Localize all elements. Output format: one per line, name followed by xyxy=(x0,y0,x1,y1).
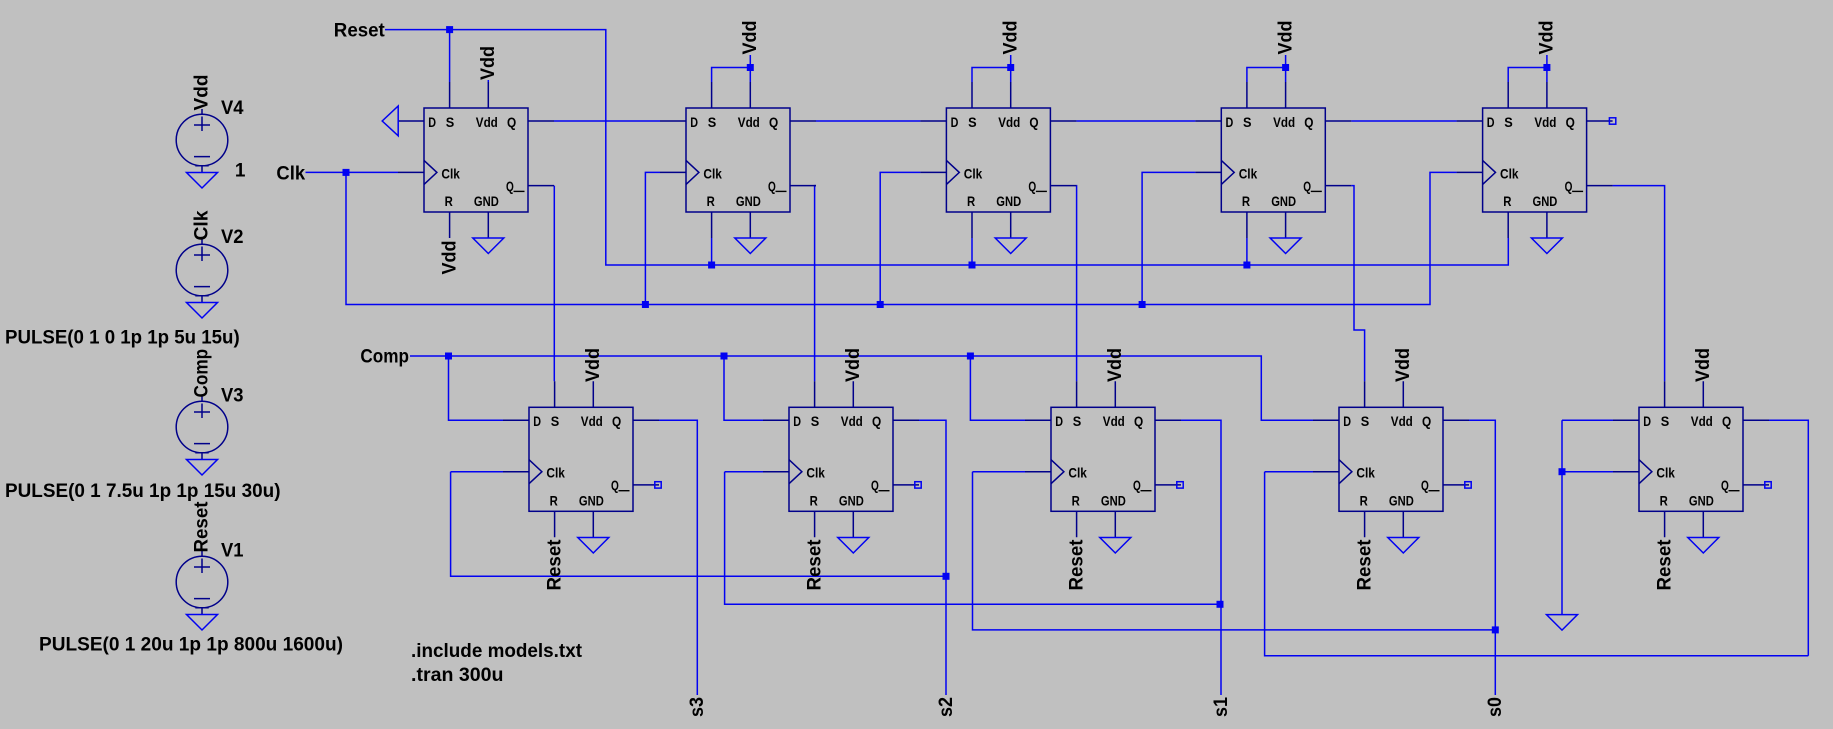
node junction Vdd jog xyxy=(1282,64,1289,71)
svg-text:PULSE(0 1 7.5u 1p 1p 15u 30u): PULSE(0 1 7.5u 1p 1p 15u 30u) xyxy=(5,481,281,502)
ground at U6 GND pin xyxy=(578,538,609,554)
voltage source V1 xyxy=(176,551,228,615)
node junction Vdd jog xyxy=(1543,64,1550,71)
svg-text:V2: V2 xyxy=(221,227,244,248)
node junction s2 / U6 Clk line xyxy=(943,573,950,580)
ground below V1 xyxy=(187,615,218,631)
ground at U8 GND pin xyxy=(1100,538,1131,554)
wire U5 Qbar to U10 S xyxy=(1613,186,1665,382)
wire U7 Q to s2 xyxy=(919,420,946,695)
svg-text:Vdd: Vdd xyxy=(1105,348,1126,382)
node junction Clk bus / U2 xyxy=(642,301,649,308)
ground below V3 xyxy=(187,460,218,476)
wire Vdd jog at S pin xyxy=(1508,55,1547,82)
node U7 Qbar output (open terminal) xyxy=(915,482,921,488)
node U1 D input arrow xyxy=(382,106,398,136)
node U10 Qbar output (open terminal) xyxy=(1765,482,1771,488)
svg-text:Reset: Reset xyxy=(544,539,565,591)
svg-text:V1: V1 xyxy=(221,541,244,562)
wire U8 Q to s1 xyxy=(1181,420,1221,695)
svg-text:Vdd: Vdd xyxy=(583,348,604,382)
node junction Reset bus / U2 R xyxy=(708,262,715,269)
svg-text:Vdd: Vdd xyxy=(478,46,499,80)
node junction s1 / U7 Clk line xyxy=(1217,601,1224,608)
svg-text:Vdd: Vdd xyxy=(192,75,213,111)
ground at U1 GND pin xyxy=(473,238,504,254)
svg-text:PULSE(0 1 0 1p 1p 5u 15u): PULSE(0 1 0 1p 1p 5u 15u) xyxy=(5,327,240,348)
svg-text:Vdd: Vdd xyxy=(1275,21,1296,55)
wire U3 Q to U4 D xyxy=(1076,120,1195,122)
flip-flop U4 (D flip-flop, top row) xyxy=(1195,82,1351,238)
wire U1 Qbar to U6 S xyxy=(553,186,555,382)
node U5 Q output (open terminal) xyxy=(1609,118,1615,124)
wire Clk bus to U5 Clk xyxy=(346,172,1457,304)
wire U1 Q to U2 D xyxy=(554,120,660,122)
flip-flop U7 (D flip-flop, bottom row) xyxy=(763,381,919,537)
ground at U2 GND pin xyxy=(735,238,766,254)
svg-text:Vdd: Vdd xyxy=(843,348,864,382)
wire Vdd jog at S pin xyxy=(1247,55,1286,82)
node U9 Qbar output (open terminal) xyxy=(1465,482,1471,488)
wire Vdd jog at S pin xyxy=(712,55,751,82)
wire U2 Q to U3 D xyxy=(816,120,920,122)
svg-text:Comp: Comp xyxy=(360,346,409,367)
wire U10 Q wire xyxy=(1769,420,1808,655)
svg-text:s0: s0 xyxy=(1485,697,1506,717)
wire U9 Q to s0 xyxy=(1469,420,1495,695)
node junction Comp / U7 D xyxy=(721,353,728,360)
svg-text:Vdd: Vdd xyxy=(439,241,460,275)
node junction Clk bus / U4 xyxy=(1139,301,1146,308)
node junction s0 / U8 Clk line xyxy=(1492,626,1499,633)
flip-flop U9 (D flip-flop, bottom row) xyxy=(1313,381,1469,537)
wire Reset bus to U2 R xyxy=(711,238,713,265)
ground at U7 GND pin xyxy=(838,538,869,554)
svg-text:Reset: Reset xyxy=(1354,539,1375,591)
node junction U10 D-Clk tie xyxy=(1559,468,1566,475)
svg-text:Clk: Clk xyxy=(192,210,213,240)
svg-text:s3: s3 xyxy=(687,697,708,717)
ground below V4 xyxy=(187,173,218,189)
svg-text:Vdd: Vdd xyxy=(1537,21,1558,55)
wire Reset bus to U4 R xyxy=(1246,238,1248,265)
wire Reset net: label to FF2-FF5 R bus xyxy=(385,30,1508,265)
svg-text:Vdd: Vdd xyxy=(1393,348,1414,382)
wire U3 Qbar to U8 S xyxy=(1075,186,1077,382)
wire U10 D/Clk tie to ground xyxy=(1562,420,1613,614)
wire U10 D tie wire xyxy=(1562,419,1613,421)
svg-text:Reset: Reset xyxy=(1066,539,1087,591)
svg-text:Reset: Reset xyxy=(1654,539,1675,591)
wire Reset bus to U3 R xyxy=(971,238,973,265)
voltage source V4 xyxy=(176,109,228,173)
ground at U9 GND pin xyxy=(1388,538,1419,554)
ground at U3 GND pin xyxy=(995,238,1026,254)
wire Comp to U7 D xyxy=(724,356,763,420)
flip-flop U8 (D flip-flop, bottom row) xyxy=(1025,381,1181,537)
wire Reset to U1 S pin xyxy=(449,30,451,82)
flip-flop U3 (D flip-flop, top row) xyxy=(920,82,1076,238)
node U6 Qbar output (open terminal) xyxy=(655,482,661,488)
svg-text:Reset: Reset xyxy=(192,501,213,553)
svg-text:Comp: Comp xyxy=(192,349,213,398)
node junction Clk label / U1 Clk xyxy=(343,169,350,176)
node junction Reset / U1 S xyxy=(446,26,453,33)
wire U6 Clk stub wire xyxy=(451,471,503,473)
wire Comp to U8 D xyxy=(970,356,1025,420)
wire Clk bus to U2 Clk xyxy=(645,172,660,304)
wire U7 Clk stub wire xyxy=(725,471,763,473)
svg-text:Reset: Reset xyxy=(334,21,386,42)
voltage source V2 xyxy=(176,239,228,303)
flip-flop U6 (D flip-flop, bottom row) xyxy=(503,381,659,537)
flip-flop U1 (D flip-flop, top row) xyxy=(398,82,554,238)
wire Clk bus to U3 Clk xyxy=(880,172,920,304)
node junction Vdd jog xyxy=(1007,64,1014,71)
flip-flop U10 (D flip-flop, bottom row) xyxy=(1613,381,1769,537)
ground at U5 GND pin xyxy=(1531,238,1562,254)
ground at U10 GND pin xyxy=(1688,538,1719,554)
svg-text:Clk: Clk xyxy=(276,163,305,184)
wire U4 Q to U5 D xyxy=(1351,120,1456,122)
svg-text:Vdd: Vdd xyxy=(1000,21,1021,55)
wire U2 Qbar to U7 S xyxy=(815,186,816,382)
node U8 Qbar output (open terminal) xyxy=(1177,482,1183,488)
svg-text:1: 1 xyxy=(235,160,246,181)
svg-text:V3: V3 xyxy=(221,386,244,407)
wire U1 Vdd label stub xyxy=(487,80,489,82)
wire U9 Clk stub wire xyxy=(1265,471,1313,473)
ground at U10 D/Clk tie-off xyxy=(1547,615,1578,631)
svg-text:s2: s2 xyxy=(936,697,957,717)
ground at U4 GND pin xyxy=(1270,238,1301,254)
node junction Comp / U8 D xyxy=(967,353,974,360)
svg-text:.include models.txt: .include models.txt xyxy=(411,641,583,662)
flip-flop U2 (D flip-flop, top row) xyxy=(660,82,816,238)
wire s0 net to U8 Clk xyxy=(973,472,1496,630)
ground below V2 xyxy=(187,303,218,319)
svg-text:PULSE(0 1 20u 1p 1p 800u 1600u: PULSE(0 1 20u 1p 1p 800u 1600u) xyxy=(39,634,343,655)
wire U8 Clk stub wire xyxy=(973,471,1026,473)
node junction Reset bus / U3 R xyxy=(969,262,976,269)
node junction Clk bus / U3 xyxy=(877,301,884,308)
wire Vdd jog at S pin xyxy=(972,55,1011,82)
voltage source V3 xyxy=(176,396,228,460)
wire Comp net bus to U9 D xyxy=(410,356,1313,420)
svg-text:V4: V4 xyxy=(221,98,244,119)
wire U4 Qbar to U9 S xyxy=(1351,186,1364,382)
wire Clk label to U1 Clk pin xyxy=(306,171,399,173)
node junction Comp / U6 D xyxy=(445,353,452,360)
wire s2 net to U6 Clk xyxy=(451,472,946,577)
wire s1 net to U7 Clk xyxy=(725,472,1220,605)
svg-text:s1: s1 xyxy=(1211,697,1232,717)
svg-text:.tran 300u: .tran 300u xyxy=(411,665,504,686)
node junction Vdd jog xyxy=(747,64,754,71)
flip-flop U5 (D flip-flop, top row) xyxy=(1457,82,1613,238)
wire Clk bus to U4 Clk xyxy=(1142,172,1195,304)
wire U10 Q net to U9 Clk xyxy=(1265,472,1809,656)
svg-text:Vdd: Vdd xyxy=(740,21,761,55)
wire Comp to U6 D xyxy=(449,356,504,420)
wire U6 Q to s3 xyxy=(659,420,697,695)
svg-text:Vdd: Vdd xyxy=(1693,348,1714,382)
svg-text:Reset: Reset xyxy=(804,539,825,591)
node junction Reset bus / U4 R xyxy=(1243,262,1250,269)
